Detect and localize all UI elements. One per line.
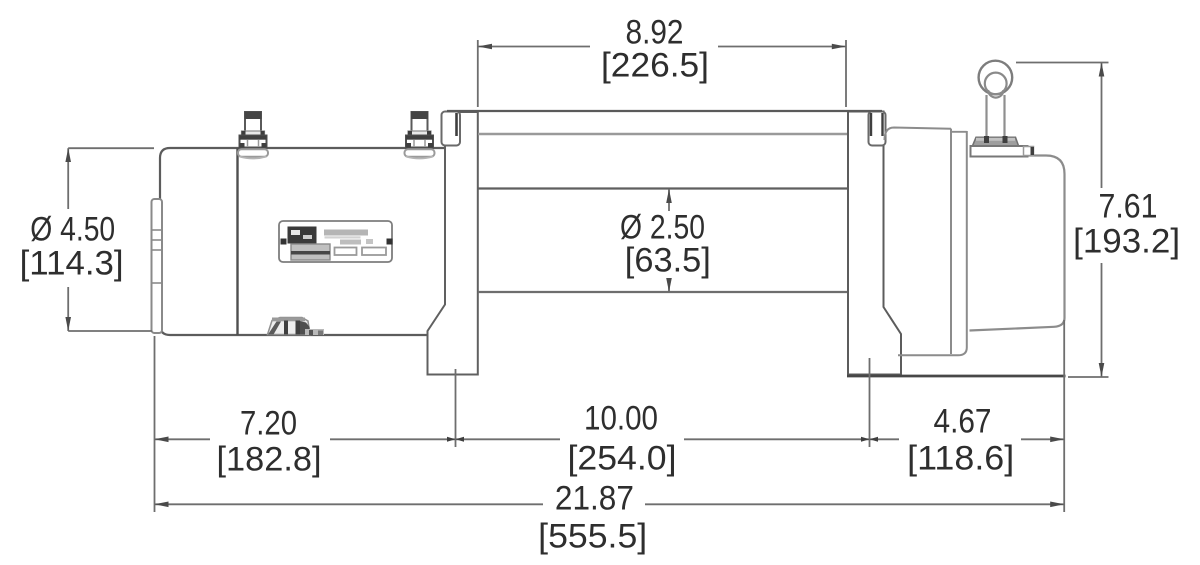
motor bottom fitting bbox=[268, 318, 325, 336]
clutch housing bbox=[970, 156, 1065, 331]
right drum support plate bbox=[848, 112, 901, 375]
clutch lever knob inner arc bbox=[985, 73, 1007, 95]
svg-text:[254.0]: [254.0] bbox=[568, 440, 677, 478]
label text bars bbox=[324, 230, 368, 236]
svg-text:7.61: 7.61 bbox=[1099, 188, 1158, 226]
svg-text:[182.8]: [182.8] bbox=[217, 441, 322, 479]
drum tie rod line bbox=[478, 133, 847, 136]
svg-text:[193.2]: [193.2] bbox=[1073, 223, 1180, 261]
motor left protrusion bbox=[152, 199, 163, 333]
svg-text:[63.5]: [63.5] bbox=[625, 242, 711, 280]
dimension 7.61 line bbox=[1101, 63, 1103, 189]
label logo block bbox=[288, 227, 317, 244]
dimension row 7.20 / 10.00 / 4.67 line bbox=[155, 438, 211, 440]
svg-text:4.67: 4.67 bbox=[934, 403, 992, 441]
left support top tab bbox=[442, 112, 461, 146]
motor housing body bbox=[160, 148, 446, 335]
motor end cap divider line bbox=[236, 148, 238, 335]
dimension dia 2.50 line bbox=[668, 189, 670, 211]
clutch lever base tier 2 bbox=[971, 146, 1028, 157]
bottom extension lines bbox=[154, 336, 156, 512]
row arrows bbox=[155, 437, 169, 443]
dimension 21.87 arrows bbox=[155, 502, 169, 508]
bolt 2 bbox=[405, 112, 435, 159]
svg-text:Ø 4.50: Ø 4.50 bbox=[30, 211, 115, 249]
protrusion detail ticks bbox=[152, 230, 161, 283]
svg-text:[226.5]: [226.5] bbox=[601, 47, 709, 85]
drum top tie plate line bbox=[447, 110, 882, 112]
right support top tab bbox=[869, 112, 886, 146]
dimension dia 4.50 line bbox=[67, 148, 69, 209]
gear housing face band line 2 with base top edge bbox=[898, 131, 967, 355]
svg-text:[118.6]: [118.6] bbox=[907, 440, 1014, 478]
gear housing top edge bbox=[885, 128, 952, 141]
dimension 7.61 arrows bbox=[1099, 63, 1105, 77]
bolt 1 bbox=[238, 112, 268, 159]
clutch lever neck arc bbox=[988, 90, 1003, 98]
svg-text:[555.5]: [555.5] bbox=[538, 518, 647, 556]
label small box 2 bbox=[362, 248, 386, 256]
drum bottom edge bbox=[478, 291, 847, 293]
svg-text:7.20: 7.20 bbox=[240, 405, 297, 443]
drum top edge bbox=[478, 187, 847, 189]
label barcode block bbox=[291, 244, 330, 260]
label right ear bbox=[387, 239, 393, 245]
dimension 8.92 arrows bbox=[478, 44, 492, 50]
clutch lever base tier 1 bbox=[973, 137, 1019, 146]
chain tick at 869 bbox=[861, 437, 878, 442]
svg-text:10.00: 10.00 bbox=[584, 400, 658, 438]
svg-text:21.87: 21.87 bbox=[555, 480, 634, 518]
dimension 8.92 line bbox=[478, 46, 590, 48]
dimension dia 2.50 arrows bbox=[666, 189, 672, 203]
dimension 8.92 extension lines bbox=[477, 40, 479, 107]
label small box 1 bbox=[335, 248, 357, 256]
clutch lever knob bbox=[979, 61, 1013, 95]
svg-text:[114.3]: [114.3] bbox=[20, 245, 124, 283]
motor label plate bbox=[279, 221, 392, 262]
base plate bottom line bbox=[847, 375, 1066, 378]
gear housing face band line 1 bbox=[950, 129, 952, 354]
clutch lever stem bbox=[985, 95, 987, 137]
dimension 7.61 extension lines bbox=[1016, 62, 1109, 64]
label left ear bbox=[281, 239, 287, 245]
dimension dia 4.50 extension lines bbox=[68, 147, 154, 149]
left drum support plate bbox=[428, 112, 478, 375]
dimension dia 4.50 arrows bbox=[65, 148, 71, 162]
chain tick at 455 bbox=[447, 437, 464, 442]
dimension 21.87 line bbox=[155, 503, 544, 505]
